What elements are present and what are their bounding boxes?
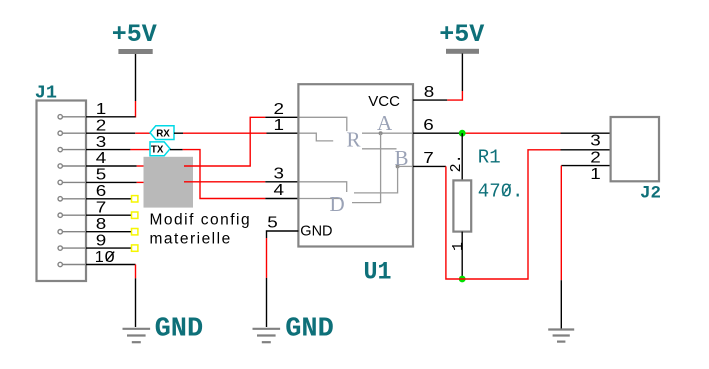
svg-text:GND: GND (285, 315, 334, 345)
wire RX label to U1 pin1 (174, 132, 298, 134)
config block label line 2 (150, 231, 232, 248)
svg-text:U1: U1 (364, 257, 392, 286)
svg-text:+5V: +5V (439, 20, 484, 49)
wire U1 pin8 to +5V right (413, 54, 462, 101)
U1 internal trace from pin3 (300, 182, 347, 192)
wire J1 pin10 to ground (86, 265, 136, 328)
U1 internal trace from pin1 (300, 133, 334, 141)
svg-text:materielle: materielle (150, 231, 232, 248)
resistor R1 top lead (461, 133, 463, 180)
svg-text:TX: TX (151, 145, 164, 156)
resistor R1 bottom lead (461, 232, 463, 279)
U1 internal node B junction and drop (354, 164, 412, 193)
ground symbol (right) (548, 330, 574, 342)
U1 internal letter A (377, 111, 393, 135)
wire U1 pin7 to J2 pin2 (around bottom) (413, 150, 611, 279)
svg-text:9: 9 (96, 232, 107, 249)
svg-text:7: 7 (423, 150, 434, 167)
U1 VCC text (368, 93, 400, 110)
net label RX (150, 126, 174, 140)
svg-text:6: 6 (96, 183, 107, 200)
svg-text:4: 4 (274, 182, 285, 199)
svg-text:5: 5 (96, 167, 107, 184)
wire J2 pin1 to ground (right) (561, 166, 610, 329)
IC U1 body (298, 84, 413, 246)
svg-text:D: D (330, 192, 345, 216)
wire +5V left vertical black (135, 54, 137, 101)
wire J1 pin1 to +5V (86, 116, 136, 118)
svg-text:3: 3 (96, 134, 107, 151)
U1 right pin numbers (423, 84, 434, 167)
svg-text:8: 8 (96, 216, 107, 233)
svg-text:1: 1 (95, 249, 104, 266)
svg-text:8: 8 (424, 84, 435, 101)
svg-text:3: 3 (590, 132, 601, 149)
R1 reference label (478, 146, 501, 168)
ground symbol (left) (123, 329, 151, 342)
U1 GND text (300, 223, 332, 239)
ground GND text (left) (155, 315, 204, 345)
svg-text:R: R (347, 127, 361, 151)
wire J1 pin9 stub (86, 247, 132, 249)
connector J2 pin numbers (590, 132, 601, 183)
unconnected flag pin7 (132, 212, 138, 218)
U1 internal letter D (330, 192, 345, 216)
power +5V (right) label (439, 20, 484, 49)
connector J2 body (611, 117, 659, 181)
U1 reference label (364, 257, 392, 286)
unconnected flag pin9 (132, 245, 138, 251)
svg-text:Modif config: Modif config (150, 212, 252, 229)
wire TX label to U1 pin4 (170, 150, 298, 199)
power +5V (right) bar symbol (446, 49, 479, 54)
svg-text:1: 1 (96, 101, 107, 118)
U1 internal letter B (395, 146, 409, 170)
connector J1 pin numbers (95, 101, 115, 266)
wire U1 pin5 to ground (middle) (267, 231, 299, 327)
wire config block out A to U1 pin2 (184, 117, 298, 166)
svg-text:5: 5 (267, 215, 278, 232)
connector J2 reference label (640, 184, 661, 204)
svg-text:GND: GND (300, 223, 332, 239)
wire J1 pin7 stub (86, 214, 132, 216)
connector J1 body (37, 101, 87, 282)
junction node at R1 bottom (459, 276, 466, 283)
svg-text:VCC: VCC (368, 93, 400, 110)
svg-text:J2: J2 (640, 184, 661, 204)
wire J1 pin2 to RX label (black then red) (86, 132, 150, 134)
U1 internal trace R to B (362, 148, 397, 150)
slash on zero of pin 10 (106, 252, 114, 261)
wire J1 pin3 to TX label (86, 149, 150, 151)
net label TX (150, 142, 170, 156)
connector J1 pin contacts (58, 115, 86, 267)
svg-text:R1: R1 (478, 146, 501, 168)
config block label line 1 (150, 212, 252, 229)
U1 internal node A row trace (362, 132, 412, 134)
resistor R1 body (453, 180, 471, 231)
U1 internal node A junction and drop (352, 131, 383, 202)
U1 internal letter R (347, 127, 361, 151)
svg-text:7: 7 (96, 199, 107, 216)
svg-text:B: B (395, 146, 409, 170)
svg-text:6: 6 (423, 117, 434, 134)
wire J1 pin4 to config block (86, 165, 144, 167)
svg-text:470.: 470. (478, 180, 524, 202)
svg-text:1: 1 (590, 166, 601, 183)
ground GND text (middle) (285, 315, 334, 345)
svg-text:2.: 2. (448, 154, 465, 172)
U1 left pin numbers (267, 101, 284, 232)
junction node at R1 top (459, 130, 466, 137)
ground symbol (middle) (253, 329, 281, 342)
svg-text:2: 2 (96, 117, 107, 134)
R1 pin number 2 (rotated) (448, 154, 465, 172)
svg-text:1: 1 (274, 117, 285, 134)
wire config block out B to U1 pin3 (184, 181, 298, 183)
U1 internal trace from pin4 (300, 198, 343, 200)
slash on zero of 470 (503, 184, 511, 195)
unconnected flag pin6 (132, 196, 138, 202)
wire J1 pin8 stub (86, 231, 132, 233)
svg-text:3: 3 (274, 166, 285, 183)
unconnected flag pin8 (132, 229, 138, 235)
svg-text:RX: RX (156, 128, 170, 139)
power +5V (left) bar symbol (118, 49, 152, 54)
svg-text:4: 4 (96, 150, 107, 167)
svg-text:1: 1 (450, 242, 467, 251)
wire U1 pin6 to J2 pin3 (413, 132, 611, 134)
svg-text:2: 2 (590, 150, 601, 167)
svg-text:GND: GND (155, 315, 204, 345)
U1 internal trace from pin2 (300, 117, 347, 131)
power +5V (left) label (112, 20, 157, 49)
wire +5V left vertical red segment (135, 101, 137, 118)
svg-text:+5V: +5V (112, 20, 157, 49)
svg-text:2: 2 (274, 101, 285, 118)
svg-text:A: A (377, 111, 393, 135)
config block (gray box) (144, 157, 194, 208)
R1 value label (478, 180, 524, 202)
R1 pin number 1 (rotated) (450, 242, 467, 251)
connector J1 reference label (35, 83, 57, 104)
wire J1 pin6 stub (86, 198, 132, 200)
wire J1 pin5 to config block (86, 181, 144, 183)
